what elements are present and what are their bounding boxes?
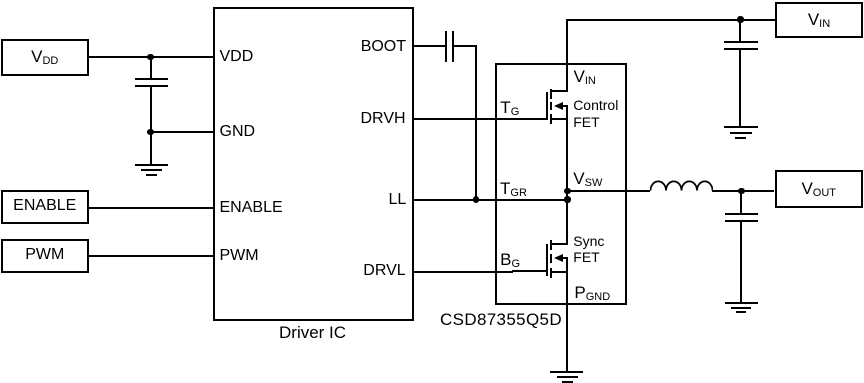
label Sync FET — [573, 234, 604, 248]
wire inductor to VOUT node — [712, 190, 741, 192]
wire C2 to corner — [454, 45, 477, 47]
wire C1 to GND node — [150, 87, 152, 133]
transistor Q2 drain connector — [551, 243, 568, 245]
ground symbol VOUT — [725, 302, 759, 304]
terminal box ENABLE — [1, 190, 89, 225]
terminal box VIN — [775, 2, 863, 38]
wire VOUT node to box — [741, 190, 774, 192]
wire VSW to inductor — [567, 190, 650, 192]
transistor block CSD87355Q5D box — [495, 63, 627, 305]
wire GND node to driver — [151, 131, 214, 133]
pin label PGND — [574, 284, 610, 303]
wire VDD node to C1 — [150, 57, 152, 79]
wire VIN node to C3 — [739, 20, 741, 42]
node VSW lower junction — [564, 196, 570, 202]
wire C3 to ground — [739, 50, 741, 126]
pin label VSW — [573, 170, 602, 189]
pin label TGR — [500, 180, 527, 199]
capacitor C4 output — [725, 213, 759, 215]
label Control FET — [573, 98, 618, 112]
ground symbol PGND — [550, 371, 583, 373]
node VSW upper junction — [564, 188, 570, 194]
inductor L1 — [650, 179, 713, 192]
wire VDD source to driver — [89, 56, 214, 58]
node GND junction — [147, 129, 153, 135]
transistor Q1 channel segments — [550, 89, 552, 99]
wire PGND vertical to ground — [566, 257, 568, 371]
wire GND node to ground — [150, 132, 152, 165]
wire switch node vertical — [566, 105, 568, 245]
transistor Q1 control FET gate bar — [546, 92, 548, 121]
label Driver IC — [279, 324, 346, 341]
ground symbol VIN — [724, 126, 758, 128]
pin label LL — [389, 192, 407, 208]
transistor Q1 source connector — [551, 118, 568, 120]
op-amp U1 Driver IC box — [213, 7, 414, 321]
wire VIN top rail — [566, 19, 775, 21]
wire ENABLE to driver — [89, 207, 214, 209]
wire PWM to driver — [89, 255, 214, 257]
capacitor C2 bootstrap — [445, 31, 447, 62]
transistor Q2 channel segments — [550, 240, 552, 250]
wire boot corner down to LL — [475, 45, 477, 200]
transistor Q1 drain connector — [551, 90, 568, 92]
wire VOUT node to C4 — [740, 191, 742, 214]
pin label PWM — [220, 248, 259, 264]
wire C4 to ground — [740, 222, 742, 303]
wire LL to switch node — [413, 199, 567, 201]
transistor Q2 body arrow — [554, 254, 563, 262]
transistor Q1 body arrow — [554, 102, 563, 110]
terminal box VOUT — [775, 170, 864, 208]
pin label TG — [500, 99, 519, 118]
node VDD junction — [147, 54, 153, 60]
pin label VDD — [220, 49, 254, 65]
transistor Q1 body connector — [561, 105, 568, 107]
pin label ENABLE — [220, 200, 283, 216]
ground symbol VDD — [135, 164, 168, 166]
wire BOOT to C2 — [413, 45, 445, 47]
terminal box VDD — [1, 39, 89, 76]
wire DRVL to gate segment 2 — [512, 270, 548, 272]
wire DRVL to gate segment 1 — [413, 271, 513, 273]
transistor Q2 body connector — [561, 257, 568, 259]
transistor Q2 source connector — [551, 271, 568, 273]
wire DRVH to gate — [413, 118, 547, 120]
wire VIN drain vertical — [566, 19, 568, 92]
label CSD87355Q5D — [440, 311, 562, 328]
capacitor C1 VDD bypass — [135, 78, 168, 80]
pin label VIN internal — [574, 68, 596, 87]
transistor Q2 sync FET gate bar — [546, 244, 548, 276]
node LL boot junction — [473, 196, 479, 202]
pin label BG — [500, 251, 520, 270]
pin label DRVL — [363, 263, 405, 279]
terminal box PWM — [1, 239, 89, 274]
node VIN junction — [737, 16, 743, 22]
pin label DRVH — [361, 111, 406, 127]
pin label GND — [220, 124, 256, 140]
capacitor C3 VIN bypass — [724, 41, 758, 43]
pin label BOOT — [361, 39, 406, 55]
node VOUT junction — [738, 188, 744, 194]
